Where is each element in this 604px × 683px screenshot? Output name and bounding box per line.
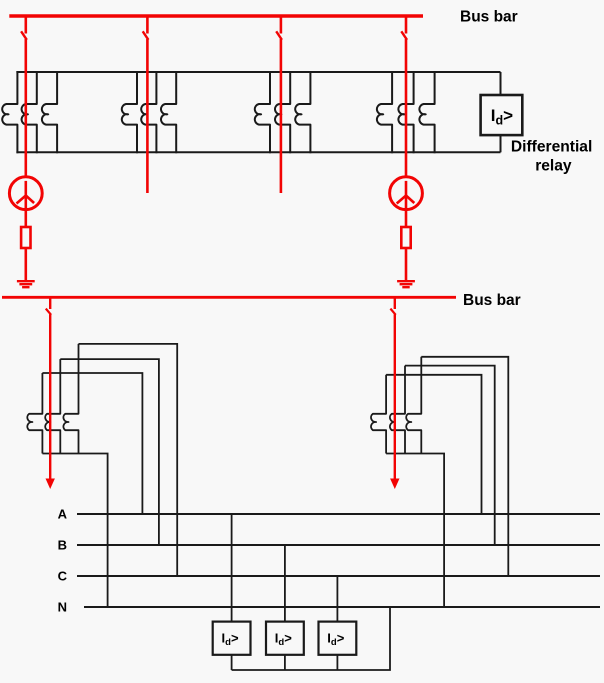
svg-text:Differential: Differential	[511, 139, 592, 156]
CT winding CT1.1	[2, 71, 17, 153]
feeder 2 with circuit breaker	[146, 16, 149, 34]
CT winding CT4.2	[398, 71, 413, 153]
neutral bus N	[84, 606, 600, 608]
CT winding CT5.A	[27, 373, 42, 454]
CT winding CT3.3	[295, 71, 310, 153]
svg-text:C: C	[58, 569, 68, 584]
svg-text:A: A	[58, 507, 68, 522]
CT winding CT2.2	[141, 71, 156, 153]
wire U4 to common return	[336, 655, 338, 670]
differential relay U1	[481, 95, 523, 135]
wire CT6.C secondary to bus	[421, 357, 508, 576]
CT winding CT5.B	[45, 359, 60, 453]
bus bar 1	[9, 14, 423, 17]
phase bus A	[77, 513, 600, 515]
bus bar 2	[2, 296, 456, 299]
wire U2 to phase bus	[231, 514, 233, 622]
phase relay U3	[266, 622, 304, 655]
wire CT6.A secondary to bus	[386, 375, 481, 514]
feeder 3 with circuit breaker	[280, 16, 283, 34]
CT winding CT2.3	[161, 71, 176, 153]
phase relay U2	[213, 622, 251, 655]
outgoing feeder 6 with breaker and arrow	[394, 297, 396, 309]
load arrow symbol feeder 1	[9, 177, 42, 210]
earth symbol feeder 1	[17, 280, 35, 282]
CT winding CT1.3	[42, 71, 57, 153]
feeder 1 with circuit breaker	[24, 16, 27, 34]
svg-text:Bus bar: Bus bar	[460, 9, 518, 26]
CT winding CT3.2	[275, 71, 290, 153]
CT secondary bottom rail	[16, 151, 500, 153]
phase bus B	[77, 544, 600, 546]
fuse feeder 1	[21, 227, 30, 248]
svg-text:B: B	[58, 538, 67, 553]
wire feeder 4 to earth	[405, 248, 408, 281]
CT secondary top rail	[16, 71, 500, 73]
CT winding CT4.1	[377, 71, 392, 153]
CT winding CT2.1	[122, 71, 137, 153]
CT winding CT6.A	[371, 375, 386, 454]
feeder 4 with circuit breaker	[405, 16, 408, 34]
wire U3 to phase bus	[284, 545, 286, 622]
wire CT5.C secondary to bus	[79, 344, 178, 576]
outgoing feeder 5 with breaker and arrow	[49, 297, 51, 309]
svg-text:N: N	[58, 600, 67, 615]
CT winding CT3.1	[255, 71, 270, 153]
CT winding CT1.2	[22, 71, 37, 153]
wire CT5.A secondary to bus	[42, 373, 142, 514]
CT winding CT6.C	[406, 357, 421, 454]
wire CT5 star point to N	[42, 454, 107, 608]
phase bus C	[77, 575, 600, 577]
load arrow symbol feeder 4	[390, 177, 423, 210]
CT winding CT4.3	[419, 71, 434, 153]
phase relay U4	[319, 622, 357, 655]
svg-text:relay: relay	[535, 157, 572, 174]
fuse feeder 4	[401, 227, 410, 248]
wire CT5.B secondary to bus	[60, 359, 159, 545]
svg-text:Bus bar: Bus bar	[463, 292, 521, 309]
wire U3 to common return	[284, 655, 286, 670]
wire U2 to common return	[231, 655, 233, 670]
wire rail to relay bottom	[500, 135, 502, 152]
wire rail to relay top	[500, 72, 502, 95]
CT winding CT5.C	[63, 344, 78, 454]
common return wire to N	[232, 607, 390, 670]
wire CT6 star point to N	[386, 454, 444, 608]
CT winding CT6.B	[390, 366, 405, 454]
wire CT6.B secondary to bus	[405, 366, 495, 545]
wire U4 to phase bus	[336, 576, 338, 622]
earth symbol feeder 4	[397, 280, 415, 282]
wire feeder 1 to earth	[24, 248, 27, 281]
